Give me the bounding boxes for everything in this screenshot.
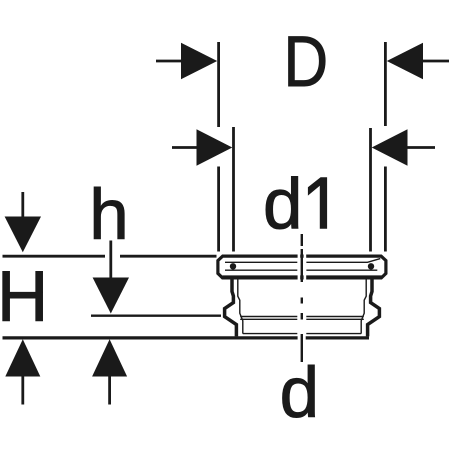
fitting: right inner wall thin	[361, 279, 366, 334]
svg-text:d: d	[280, 354, 320, 433]
svg-text:H: H	[0, 258, 48, 337]
fitting: seal groove lower line	[225, 269, 377, 271]
H bottom arrow stem	[21, 376, 24, 405]
fitting: seal groove upper line	[225, 259, 380, 263]
extension line right of D (x=385.4)	[384, 42, 387, 126]
white break notches at centerline crossing	[299, 252, 305, 282]
dimension d1: left arrowhead	[197, 129, 233, 165]
extension line right of d1 (x=370.5)	[369, 128, 372, 252]
bottom reference line (bottom of fitting)	[3, 336, 298, 339]
extension line left of d1 (x=233.5)	[232, 127, 235, 252]
fitting: inner bottom edge thin	[243, 333, 361, 335]
H top down arrowhead	[5, 217, 41, 253]
svg-text:D: D	[284, 23, 329, 102]
fitting: left inner wall thin	[238, 279, 243, 334]
top reference line (top of fitting)	[3, 255, 106, 258]
fitting: left outer wall with bead	[225, 278, 237, 336]
extension line left of D (x=218.6)	[217, 42, 220, 127]
fitting: flange underside edge	[223, 275, 383, 278]
h arrow stem	[109, 241, 112, 279]
h down arrowhead	[93, 278, 129, 314]
svg-text:h: h	[89, 176, 129, 255]
svg-text:d: d	[263, 166, 303, 245]
fitting: right outer wall with bead	[368, 278, 380, 336]
dimension D: right tail wire	[423, 60, 449, 63]
h bottom arrow stem	[108, 376, 111, 405]
H top arrow stem	[21, 192, 24, 218]
fitting: right seal dot	[368, 263, 374, 269]
fitting: interior step line upper	[240, 316, 364, 318]
fitting: left seal dot	[230, 263, 236, 269]
dimension D: left arrowhead	[181, 43, 217, 79]
dimension D: right arrowhead	[387, 43, 423, 79]
centerline (dash-dot axis)	[301, 234, 303, 362]
h bottom up arrowhead	[92, 339, 127, 376]
H bottom up arrowhead	[5, 339, 40, 376]
dimension d1: right tail wire	[408, 146, 436, 149]
dimension d1: left tail wire	[172, 146, 198, 149]
fitting: flange outline (top collar)	[218, 256, 386, 278]
dimension d1: right arrowhead	[372, 129, 408, 165]
dimension D: left tail wire	[156, 60, 186, 63]
fitting: interior step line lower	[240, 318, 364, 320]
h reference line (bead level)	[91, 315, 221, 317]
